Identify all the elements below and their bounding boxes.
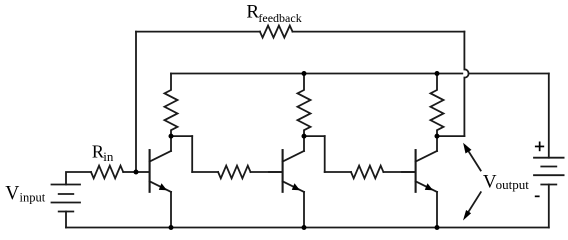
transistor Q2 — [269, 136, 304, 227]
node bottom rail stage 1 — [169, 225, 174, 230]
node junction dots — [134, 71, 440, 230]
wire feedback right vertical below hop — [463, 78, 465, 136]
wire feedback right vertical above hop — [463, 32, 465, 70]
resistor Rin — [91, 166, 123, 179]
wire interstage 1 to resistor — [192, 171, 218, 173]
resistor R1 collector stage 1 — [165, 74, 178, 137]
svg-text:feedback: feedback — [258, 11, 301, 25]
transistor Q3 — [402, 136, 437, 227]
wire supply battery top lead — [548, 74, 550, 158]
wire feedback top horizontal right segment — [293, 31, 465, 33]
node Q3 collector junction — [435, 134, 440, 139]
arrow Voutput upper — [463, 143, 481, 171]
wire Vinput bottom lead — [65, 212, 67, 228]
battery Vinput long plate 1 — [52, 184, 81, 186]
arrow Voutput lower — [463, 192, 481, 220]
resistor interstage R5 — [351, 166, 383, 179]
resistor Rfeedback — [260, 26, 293, 38]
battery Vinput long plate 2 — [52, 202, 81, 204]
node Q2 collector junction — [302, 134, 307, 139]
node supply rail stage 2 — [302, 71, 307, 76]
wire hop over supply rail — [464, 69, 468, 77]
battery supply short plate 2 — [541, 184, 556, 186]
wire Vinput top lead — [66, 172, 91, 185]
resistor interstage R4 — [218, 166, 250, 179]
node bottom rail stage 2 — [302, 225, 307, 230]
svg-text:R: R — [92, 142, 104, 162]
wire Rin to Q1 base node — [123, 171, 136, 173]
wire bottom rail — [66, 227, 549, 229]
wire feedback top-left vertical (base Q1 to top rail) — [135, 32, 137, 172]
node Q1 collector junction — [169, 134, 174, 139]
wire supply rail right segment — [469, 73, 549, 75]
battery supply long plate 2 — [534, 174, 564, 176]
wire interstage 2 vertical — [324, 136, 326, 172]
resistor R3 collector stage 3 — [431, 74, 444, 137]
wire interstage 2 horizontal from Q2 collector — [304, 135, 325, 137]
wire feedback to Q3 collector node — [437, 135, 464, 137]
node supply rail stage 3 — [435, 71, 440, 76]
wire supply rail left segment — [171, 73, 462, 75]
svg-text:in: in — [103, 149, 114, 164]
battery Vinput short plate 1 — [59, 193, 74, 195]
svg-text:input: input — [20, 191, 46, 205]
wire feedback top horizontal left segment — [136, 31, 260, 33]
resistor R2 collector stage 2 — [298, 74, 311, 137]
svg-text:output: output — [496, 177, 530, 192]
wire interstage 2 to resistor — [325, 171, 351, 173]
wire resistor to Q3 base — [383, 171, 415, 173]
transistor Q1 — [136, 136, 171, 227]
wire resistor to Q2 base — [251, 171, 283, 173]
wire interstage 1 horizontal from Q1 collector — [171, 135, 192, 137]
svg-text:V: V — [5, 183, 19, 204]
node Q1 base junction — [134, 170, 139, 175]
battery Vinput short plate 2 — [59, 211, 74, 213]
label supply minus — [535, 196, 540, 198]
node bottom rail stage 3 — [435, 225, 440, 230]
label supply plus — [535, 142, 544, 152]
battery supply long plate 1 — [534, 157, 564, 159]
wire interstage 1 vertical — [191, 136, 193, 172]
wire supply battery bottom lead — [548, 185, 550, 228]
battery supply short plate 1 — [541, 166, 556, 168]
